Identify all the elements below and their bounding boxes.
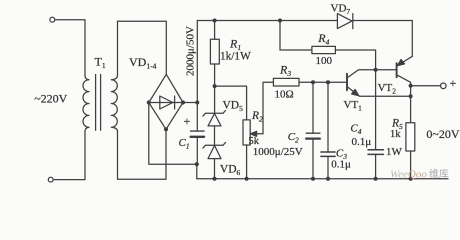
svg-text:R4: R4 <box>317 31 329 47</box>
bridge rectifier VD1-4 diamond <box>149 74 183 129</box>
zener diode VD5 triangle <box>208 114 221 126</box>
resistor R1 leads <box>214 21 216 87</box>
wire bridge plus to C1 node <box>183 102 197 104</box>
capacitor C4 top lead from node <box>375 70 377 150</box>
svg-text:1W: 1W <box>386 146 403 158</box>
transistor VT2 base bar <box>396 63 398 77</box>
svg-text:1k/1W: 1k/1W <box>220 51 251 63</box>
rail node C4 <box>374 177 378 181</box>
node VT1 emitter join <box>409 94 413 98</box>
zener VD5 to VD6 lead <box>214 126 216 145</box>
zener chain lead <box>214 86 216 113</box>
svg-text:1k: 1k <box>390 129 401 140</box>
svg-text:+: + <box>450 76 457 90</box>
output plus terminal <box>441 83 447 89</box>
svg-text:VT2: VT2 <box>378 82 397 96</box>
potentiometer R2 wiper arrow <box>256 133 263 135</box>
svg-text:VD7: VD7 <box>331 3 351 17</box>
transformer T1 core <box>96 75 101 131</box>
capacitor C4 bottom lead <box>375 154 377 178</box>
svg-text:C4: C4 <box>350 123 361 137</box>
svg-text:100: 100 <box>316 55 333 67</box>
svg-text:0.1μ: 0.1μ <box>331 159 351 171</box>
svg-text:VD5: VD5 <box>223 100 244 114</box>
input terminal bottom-left <box>48 177 53 182</box>
svg-text:~220V: ~220V <box>34 92 67 106</box>
transistor VT1 base bar <box>346 74 348 91</box>
transistor VT2 emitter arrow <box>398 60 405 66</box>
node bridge left vertex <box>147 100 151 104</box>
bottom rail <box>197 178 448 180</box>
rail node R5 <box>409 177 413 181</box>
svg-text:1000μ/25V: 1000μ/25V <box>253 146 303 158</box>
bridge inner diode triangle <box>160 96 173 109</box>
svg-text:VT1: VT1 <box>344 99 363 113</box>
rail node VD6 <box>213 177 217 181</box>
node bridge bottom vertex <box>164 127 168 131</box>
transistor VT2 base lead <box>376 69 396 71</box>
rail node C2 <box>311 177 315 181</box>
bridge inner diode cathode bar <box>174 96 176 109</box>
wire bottom-left input <box>53 132 85 180</box>
wiper to R3 wire <box>263 82 273 134</box>
svg-text:+: + <box>184 114 191 128</box>
transformer T1 secondary winding <box>111 21 117 131</box>
zener VD6 bottom lead <box>214 159 216 179</box>
transistor VT2 emitter <box>398 56 412 65</box>
svg-text:VD6: VD6 <box>220 164 241 178</box>
rail node C3 <box>326 177 330 181</box>
transistor VT1 emitter <box>347 87 410 96</box>
zener diode VD6 triangle <box>208 146 221 159</box>
svg-text:VD1-4: VD1-4 <box>129 55 157 71</box>
node C1 minus rail <box>195 162 199 166</box>
zener diode VD5 cathode bar <box>203 111 226 117</box>
capacitor C4 plates <box>368 149 383 151</box>
resistor R3 right lead to VT1 base <box>299 81 347 83</box>
wire bridge minus to rail drop <box>149 103 197 179</box>
node VT2 base drive <box>374 68 378 72</box>
resistor R4 body <box>312 46 336 53</box>
node top rail R4 branch <box>278 19 282 23</box>
capacitor C2 plates <box>306 132 320 134</box>
resistor R3 body <box>273 78 299 86</box>
wire secondary top to bridge AC top <box>118 21 167 74</box>
node C1 plus <box>195 101 199 105</box>
capacitor C3 bottom lead <box>327 156 329 178</box>
node bridge right vertex <box>181 100 185 104</box>
transistor VT1 emitter arrow <box>352 89 359 95</box>
node R1 zener junction <box>213 84 217 88</box>
node C3 top <box>326 80 330 84</box>
svg-text:0.1μ: 0.1μ <box>352 136 372 148</box>
top rail left segment <box>197 20 337 22</box>
transformer T1 primary winding <box>83 76 89 132</box>
potentiometer R2 body <box>243 120 250 145</box>
wire top-left input <box>55 20 85 76</box>
node C2 top <box>311 80 315 84</box>
svg-text:0~20V: 0~20V <box>426 127 459 141</box>
diode VD7 triangle <box>337 14 352 29</box>
zener diode VD6 cathode bar <box>203 143 226 149</box>
capacitor C3 top lead <box>327 82 329 152</box>
svg-text:2000μ/50V: 2000μ/50V <box>185 26 197 76</box>
capacitor C1 plates <box>191 130 205 132</box>
svg-text:C2: C2 <box>288 131 299 145</box>
watermark WeeQoo <box>390 167 449 180</box>
svg-text:T1: T1 <box>95 55 106 71</box>
svg-text:10Ω: 10Ω <box>275 89 294 101</box>
resistor R1 body <box>210 39 219 64</box>
input terminal top-left <box>50 17 55 22</box>
node top rail R1 <box>213 19 217 23</box>
transistor VT1 collector <box>347 70 375 78</box>
output plus stub <box>411 85 441 87</box>
capacitor C1 leads <box>196 103 198 165</box>
bridge inner diode horizontal diagonal <box>149 102 183 104</box>
diode VD7 cathode bar <box>352 14 354 29</box>
resistor R5 body <box>406 123 415 151</box>
wire secondary bottom to bridge AC bottom <box>118 129 167 179</box>
potentiometer R2 bottom lead <box>246 145 248 179</box>
svg-text:C1: C1 <box>179 137 190 151</box>
node output stub <box>409 84 413 88</box>
svg-text:R3: R3 <box>279 63 291 79</box>
rail node R2 <box>245 177 249 181</box>
capacitor C2 top lead <box>312 82 314 133</box>
capacitor C3 plates <box>321 151 335 153</box>
wire node to potentiometer top <box>215 86 247 120</box>
transistor VT2 collector <box>397 75 411 179</box>
svg-text:WeeQoo维库: WeeQoo维库 <box>390 167 449 180</box>
resistor R4 right lead to node <box>335 50 375 70</box>
top rail right segment after VD7 <box>353 21 413 57</box>
svg-text:R2: R2 <box>251 110 263 124</box>
capacitor C2 bottom lead <box>312 139 314 179</box>
wire R4 branch <box>280 21 312 51</box>
wire C1 node up to top rail <box>196 21 198 103</box>
